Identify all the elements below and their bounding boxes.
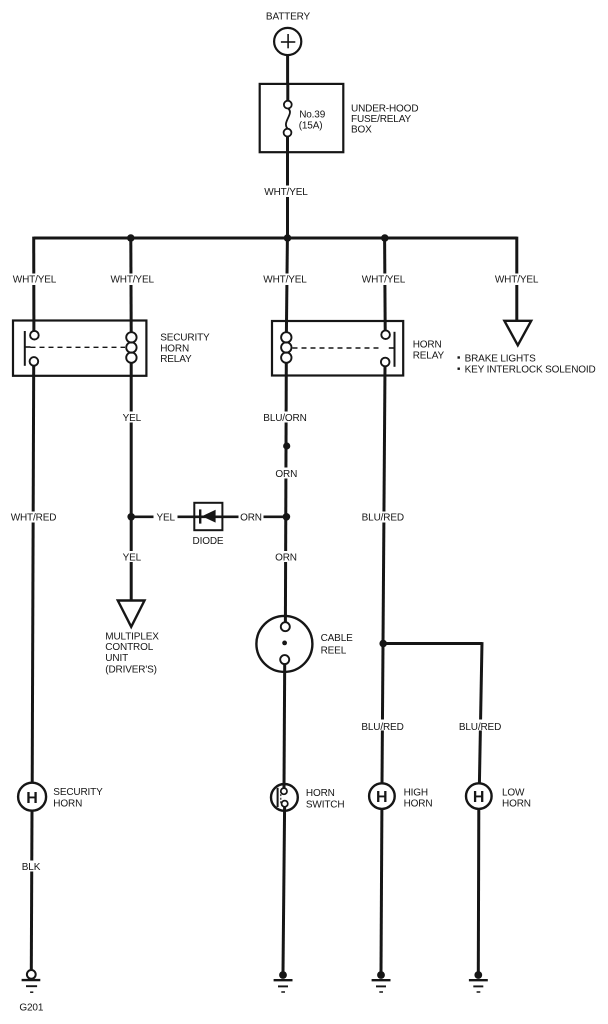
wire col D relay to high horn [382,366,385,783]
ORN label col C lower [274,551,299,563]
WHT/YEL labels row [12,274,539,286]
svg-text:WHT/YEL: WHT/YEL [362,275,406,286]
svg-text:WHT/YEL: WHT/YEL [13,275,57,286]
fuse box label [351,104,418,136]
security horn relay label [160,333,210,365]
horn switch [271,784,298,811]
ground G201 [22,970,41,992]
svg-text:WHT/YEL: WHT/YEL [110,275,154,286]
svg-text:ORN: ORN [240,513,262,524]
svg-text:BLU/RED: BLU/RED [459,722,501,733]
svg-text:CONTROL: CONTROL [105,642,153,653]
svg-text:MULTIPLEX: MULTIPLEX [105,631,159,642]
wire drop col F [515,237,518,321]
svg-text:LOW: LOW [502,787,525,798]
YEL label col B [119,412,144,424]
fuse No.39 (15A) [284,84,292,152]
svg-text:BLU/ORN: BLU/ORN [263,413,306,424]
BLK label [19,861,43,873]
under-hood fuse/relay box [260,84,344,152]
ground (high horn) [372,971,391,992]
BLU/ORN label [263,412,308,424]
svg-text:SWITCH: SWITCH [306,799,345,810]
YEL label diode [154,512,178,524]
svg-text:G201: G201 [19,1002,43,1013]
WHT/YEL label below fuse box [263,186,308,198]
svg-text:BLU/RED: BLU/RED [361,722,403,733]
svg-text:BLK: BLK [22,862,41,873]
svg-text:HORN: HORN [404,799,433,810]
horn relay dashed link [293,347,382,349]
wire col B coil to multiplex arrow [130,363,133,601]
svg-text:FUSE/RELAY: FUSE/RELAY [351,114,411,125]
svg-text:YEL: YEL [123,552,142,563]
ORN label diode [239,512,264,524]
splice dot col C [283,442,290,449]
svg-text:RELAY: RELAY [413,351,445,362]
horn relay contact tick [389,347,395,349]
svg-text:YEL: YEL [156,513,175,524]
brake lights note [458,353,596,375]
svg-text:DIODE: DIODE [193,536,224,547]
WHT/RED label [10,512,57,524]
horn relay coil [281,332,291,363]
svg-text:WHT/YEL: WHT/YEL [263,275,307,286]
ORN label col C upper [274,468,299,481]
security relay movable contact bar [24,331,26,366]
svg-text:(DRIVER'S): (DRIVER'S) [105,665,157,676]
security horn [18,783,46,811]
svg-text:ORN: ORN [275,469,297,480]
svg-text:RELAY: RELAY [160,354,192,365]
wire cable reel to horn switch [283,664,287,788]
svg-text:HORN: HORN [502,799,531,810]
wire col A relay to security horn [32,366,34,783]
junction dot bus / col C [284,234,292,242]
horn relay box [272,321,403,376]
YEL label col B lower [119,551,144,563]
junction dot bus / col B [127,234,135,242]
battery [274,28,301,55]
svg-text:BATTERY: BATTERY [266,12,311,23]
security relay contact pin bottom [30,357,39,366]
ground (low horn) [469,971,488,992]
wire drop col B [129,238,132,332]
BLU/RED label col D [361,720,405,733]
multiplex off-page arrow [118,601,145,627]
wire drop col C to horn relay coil [286,238,287,332]
svg-text:(15A): (15A) [299,121,323,132]
svg-text:HIGH: HIGH [404,787,428,798]
security relay contact pin top [30,331,39,340]
svg-text:KEY INTERLOCK SOLENOID: KEY INTERLOCK SOLENOID [465,365,596,376]
horn relay label [413,339,445,361]
cable reel label [321,633,354,657]
BLU/RED label col D upper [361,512,405,524]
wire drop col D [383,238,387,330]
svg-text:ORN: ORN [275,552,297,563]
horn switch label [306,788,345,810]
svg-text:SECURITY: SECURITY [160,333,210,344]
svg-text:H: H [376,789,387,806]
security relay coil [126,332,136,363]
svg-text:HORN: HORN [413,339,442,350]
svg-text:H: H [26,790,37,807]
security horn label [53,787,103,810]
horn relay contact pin bottom [381,358,390,367]
bus wire [34,237,517,240]
wire security horn to ground [30,811,34,971]
junction dot diode / col C [283,513,291,521]
junction dot branch / col D [379,640,387,648]
svg-text:H: H [473,789,484,806]
svg-text:BLU/RED: BLU/RED [362,513,404,524]
low horn [466,783,492,809]
high horn [369,783,395,809]
off-page arrow (brake lights) [504,321,531,346]
svg-text:UNDER-HOOD: UNDER-HOOD [351,104,418,115]
svg-text:HORN: HORN [306,788,335,799]
cable reel [256,616,312,672]
svg-text:HORN: HORN [53,799,82,810]
svg-text:HORN: HORN [160,343,189,354]
wire battery to fuse box [286,55,289,85]
wire fuse to bus [286,152,289,239]
high horn label [404,787,433,809]
security relay contact tick [25,346,31,348]
wire col C relay to cable reel [284,363,288,623]
svg-text:BRAKE LIGHTS: BRAKE LIGHTS [465,353,536,364]
low horn label [502,787,531,809]
svg-text:REEL: REEL [321,646,347,657]
diode branch wire [131,515,287,518]
wire drop col A [32,237,35,332]
svg-text:YEL: YEL [123,413,142,424]
junction dot diode / col B [127,513,135,521]
wire horn switch to ground [283,807,285,972]
wire low horn to ground [477,809,481,972]
svg-text:UNIT: UNIT [105,653,128,664]
junction dot bus / col D [381,234,389,242]
security relay dashed link [31,346,126,348]
horn relay movable contact bar [394,332,396,367]
security horn relay box [13,321,146,376]
svg-text:WHT/RED: WHT/RED [11,513,57,524]
svg-text:WHT/YEL: WHT/YEL [264,187,308,198]
svg-text:CABLE: CABLE [321,633,354,644]
wire high horn to ground [380,809,384,972]
horn relay contact pin top [381,330,390,339]
svg-text:BOX: BOX [351,124,372,135]
svg-text:WHT/YEL: WHT/YEL [495,275,539,286]
multiplex control unit label [105,631,159,675]
svg-text:SECURITY: SECURITY [53,787,103,798]
svg-text:No.39: No.39 [299,110,326,121]
branch wire to low horn [383,642,482,645]
diode [194,503,222,530]
BLU/RED label col E [458,720,502,733]
ground (horn switch) [274,971,293,992]
